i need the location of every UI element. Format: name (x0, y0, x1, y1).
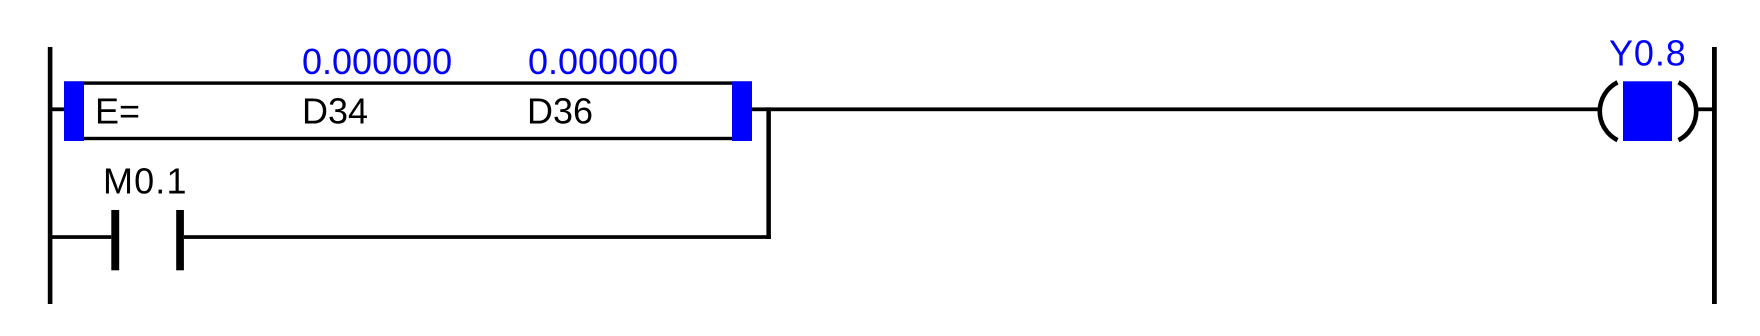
svg-text:D34: D34 (302, 91, 368, 132)
svg-text:0.000000: 0.000000 (302, 41, 452, 82)
svg-text:0.000000: 0.000000 (528, 41, 678, 82)
svg-text:E=: E= (95, 91, 140, 132)
svg-text:Y0.8: Y0.8 (1609, 33, 1687, 74)
svg-text:M0.1: M0.1 (103, 160, 188, 201)
svg-text:D36: D36 (527, 91, 593, 132)
